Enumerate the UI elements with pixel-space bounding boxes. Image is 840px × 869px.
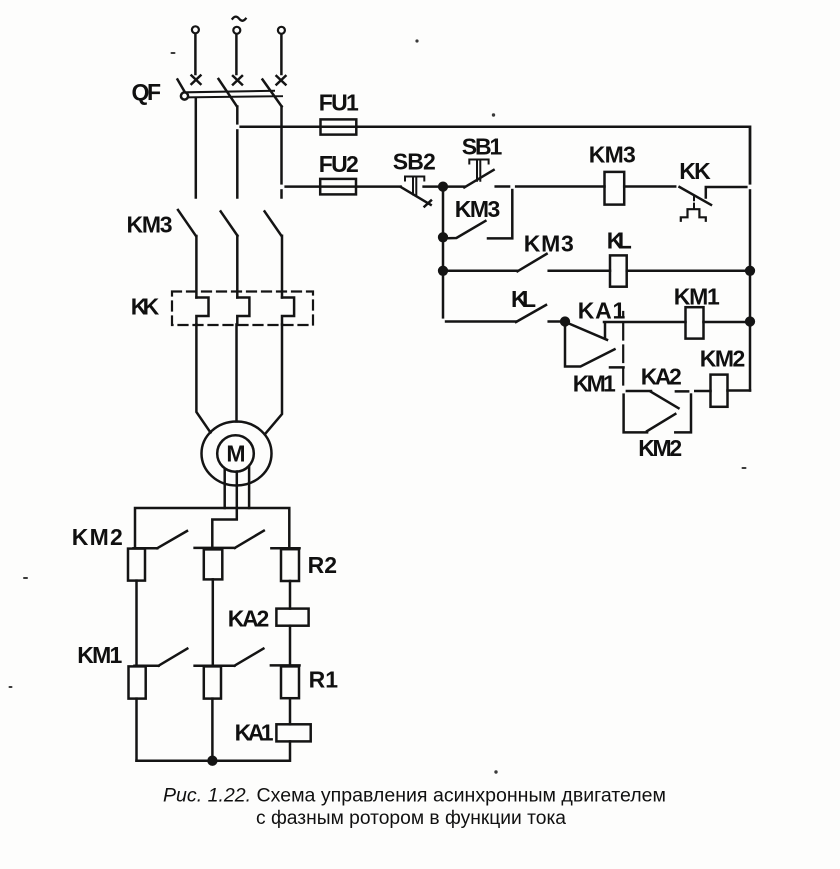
wire right branch KA2 to R1 [289,626,292,665]
node bottom bus junction [209,757,217,765]
wire row3 bracket to KM1 coil [604,321,686,324]
wire phase 1 to KK [195,236,198,298]
svg-text:KA2: KA2 [641,364,682,390]
wire phase 2 to motor [235,325,238,422]
svg-text:KK: KK [131,294,160,320]
wire row4 from link node [623,390,651,393]
QF fixed contact x mark pole 3 [277,76,286,85]
current relay coil KA2 [276,609,308,626]
wire L3 drop [280,35,283,74]
wire SB2 to node [424,185,443,188]
KA1-KA2 mechanical link (dashed) [622,312,624,391]
KK manual reset symbol [681,209,706,221]
rotor top bus wire [135,508,289,549]
contactor coil KM3 [605,172,625,205]
right rail [749,127,752,391]
node KA1 [561,318,569,326]
svg-text:KM1: KM1 [674,284,720,310]
wire middle branch mid [212,579,215,664]
KK reset mechanical link (dashed) [693,196,695,209]
QF blade pole 1 [178,80,187,95]
QF blade pole 3 [263,80,282,107]
wire FU1 row [237,127,750,187]
KK heater element pole 3 [282,298,294,325]
wire SB1 to KM3 coil [496,185,605,188]
wire L1 drop [194,34,197,74]
phase 3 vertical below QF [280,107,283,198]
svg-text:KL: KL [511,286,536,312]
KM1 rotor contact middle [195,649,264,666]
wire phase 2 to KK [236,236,239,298]
rotor lead middle with jog [212,472,237,548]
wire KA2 bracket to KM2 coil [691,390,711,393]
KM2 rotor contact middle [195,531,264,548]
wire KM2 coil to rail [728,389,751,392]
svg-text:KM3: KM3 [127,212,173,238]
svg-text:KM2: KM2 [700,345,746,371]
svg-text:KM3: KM3 [524,231,574,257]
wire KA1 to bottom bus [289,741,292,760]
left rail SB node down [442,187,445,322]
svg-text:KK: KK [679,158,711,184]
current relay coil KA1 [276,724,310,741]
resistor R1 terminal bar [271,664,300,667]
KA1 lower contact (triangle) [565,322,615,367]
wire row2 to KL coil [549,270,610,273]
rotor lead left [223,469,226,508]
resistor R2 [281,549,299,581]
fuse FU1 [321,119,357,134]
QF blade pole 2 [219,79,238,107]
svg-text:SB1: SB1 [462,133,503,159]
node after SB2 [439,183,447,191]
KK thermal relay dashed box [172,292,313,326]
wire row2 left [443,270,518,273]
svg-text:KM2: KM2 [72,524,123,550]
KA2 fixed bracket [675,391,691,432]
svg-text:с фазным ротором в функции ток: с фазным ротором в функции тока [256,808,566,829]
rotor bottom bus wire [137,759,290,762]
KK thermal contact blade [680,187,712,205]
KA2 lower contact (triangle) [624,391,676,432]
motor M stator circle [202,422,272,486]
node KM3 holding branch [439,233,447,241]
wire (scan speck) [9,39,747,773]
svg-text:SB2: SB2 [393,149,436,175]
QF fixed contact x mark pole 1 [192,76,201,85]
terminal L1 [192,26,199,33]
fuse FU2 [320,179,356,195]
KM3 holding contact bracket and riser [488,187,512,239]
motor M rotor circle [217,435,254,472]
wire KK contact to rail [706,187,750,198]
terminal L3 [278,27,285,34]
wire row3 left [443,320,516,323]
KA2 upper contact blade [651,392,679,408]
rotor lead right [248,467,251,508]
KM3 main contact pole 2 [221,211,238,235]
svg-text:KM1: KM1 [573,371,616,397]
QF operating bar (double line) [186,91,274,93]
node row3 corner (scan white-gap artifact) [440,319,445,324]
svg-text:KM1: KM1 [77,642,122,668]
svg-text:QF: QF [132,79,162,105]
svg-text:Рис. 1.22. Схема управления ас: Рис. 1.22. Схема управления асинхронным … [163,786,666,807]
relay coil KL [610,255,627,286]
svg-text:R1: R1 [309,667,339,693]
svg-text:R2: R2 [308,552,337,578]
KA1 lower fixed dash [610,366,624,369]
node rail row2 [746,267,754,275]
QF pivot circle [181,92,188,99]
svg-text:KA1: KA1 [578,298,626,324]
KA1 fixed bracket [604,323,607,339]
wire phase 1 to motor [196,325,210,433]
resistor R1 [281,666,299,698]
KM1 rotor contact left [135,649,188,666]
terminal L2 [233,27,240,34]
wire node to SB1 [443,185,464,188]
svg-text:M: M [226,441,245,467]
node KA2 bracket (scan white-gap artifact) [689,389,694,393]
AC tilde symbol [233,17,246,21]
phase 1 vertical below QF [195,98,198,198]
wire row3 to KA1 node [549,320,565,323]
wire KM3 coil to KK contact [624,185,675,188]
svg-text:KM2: KM2 [638,435,682,461]
node FU2 tap (scan white-gap artifact) [279,185,284,190]
wire left branch bottom [135,699,138,761]
wire KL coil to rail [627,270,750,273]
KM2 rotor contact left [134,531,188,548]
pushbutton SB1 blade [464,170,493,187]
KK heater element pole 2 [237,298,249,325]
resistor R2 terminal bar [271,547,299,550]
contactor coil KM1 [686,307,704,338]
wire left branch mid [135,581,138,664]
KM3 holding contact blade [443,221,485,239]
contactor section box left (KM2) [128,549,145,581]
svg-text:KM3: KM3 [455,196,501,222]
KM3 main contact pole 3 [265,211,282,235]
contactor coil KM2 [711,375,728,407]
svg-text:KL: KL [607,228,632,254]
wire L2 drop [235,35,238,74]
node KA2 link (scan white-gap artifact) [621,389,626,394]
wire right branch R2 to KA2 [289,581,292,609]
pushbutton SB2 tick [425,201,432,207]
wire middle branch bottom [211,699,214,761]
node rail row1 (scan white-gap artifact) [748,185,753,190]
svg-text:KA2: KA2 [228,605,269,631]
KM3 main contact pole 1 [178,210,196,236]
pushbutton SB2 actuator [405,177,424,195]
contactor section box middle (KM2) [204,549,223,579]
node holding-riser top (scan white-gap artifact) [510,184,515,188]
svg-text:FU2: FU2 [319,151,359,177]
node FU1 tap (scan white-gap artifact) [234,125,239,130]
wire phase 3 to KK [281,236,284,298]
pushbutton SB1 actuator [469,160,488,181]
QF fixed contact x mark pole 2 [233,76,242,85]
KK heater element pole 1 [196,298,208,325]
wire right branch R1 to KA1 [289,699,292,725]
node row2 branch [439,267,447,275]
phase 2 vertical below QF [236,107,239,198]
svg-text:KA1: KA1 [235,719,274,745]
pushbutton SB2 blade [401,187,431,205]
svg-text:KM3: KM3 [589,142,636,168]
wire FU2 to fuse [282,185,401,188]
wire KM1 coil to rail [704,321,751,324]
wire phase 3 to motor [266,325,283,434]
KA1 upper contact blade [567,323,608,340]
contactor section box left (KM1) [129,666,146,698]
KL contact blade row3 [516,305,546,322]
KM3 interlock contact blade row2 [518,254,547,271]
node rail row3 [746,318,754,326]
svg-text:FU1: FU1 [319,90,359,116]
contactor section box middle (KM1) [204,666,221,698]
